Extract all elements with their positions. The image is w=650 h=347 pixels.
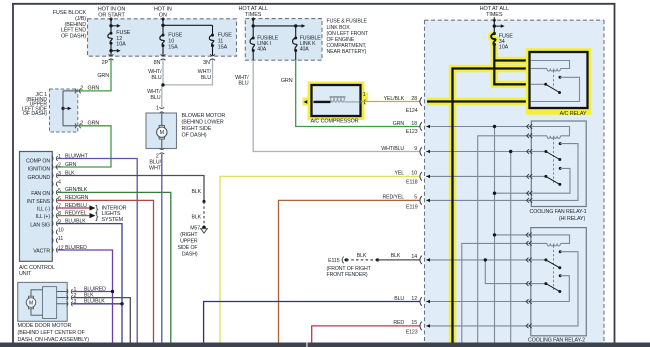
svg-text:2: 2 <box>80 86 83 92</box>
svg-text:15A: 15A <box>168 44 178 50</box>
fuse F11 15A <box>212 25 214 35</box>
svg-text:COOLING FAN RELAY-1: COOLING FAN RELAY-1 <box>530 209 587 215</box>
svg-text:UNIT: UNIT <box>19 271 32 277</box>
wire BLU to pin 12 <box>204 302 420 343</box>
svg-text:40A: 40A <box>257 47 267 53</box>
svg-text:2P: 2P <box>102 60 109 66</box>
svg-text:9: 9 <box>414 146 417 152</box>
svg-text:BLU: BLU <box>238 81 248 87</box>
svg-text:WHT: WHT <box>149 166 162 172</box>
svg-text:(FRONT OF RIGHT: (FRONT OF RIGHT <box>327 266 372 272</box>
cooling fan relay-2 <box>531 228 587 336</box>
svg-text:E118: E118 <box>406 179 418 185</box>
svg-text:10: 10 <box>58 227 64 233</box>
svg-text:LAN SIG: LAN SIG <box>30 222 50 228</box>
relay-1 switch 1 <box>531 151 546 153</box>
page border frame <box>12 3 14 343</box>
svg-text:(HI RELAY): (HI RELAY) <box>559 216 586 222</box>
fuse F34 10A <box>493 17 495 33</box>
interior vertical wire E (BLK to relay-2 sw2) <box>485 260 531 284</box>
wire GRN fuse12 to J/C1 <box>78 58 111 91</box>
svg-text:VACTR: VACTR <box>33 249 50 255</box>
relay-1 switch 2 <box>531 175 546 177</box>
svg-text:28: 28 <box>411 96 417 102</box>
svg-text:3N: 3N <box>203 60 210 66</box>
interior wire row pin 14 <box>426 259 531 261</box>
interior wire row pin 15 <box>426 325 531 327</box>
fuse and fusible link box <box>245 19 322 61</box>
svg-text:INT SENS: INT SENS <box>27 199 51 205</box>
svg-text:NEAR BATTERY): NEAR BATTERY) <box>327 49 367 55</box>
mode door motor <box>18 282 67 321</box>
wire GRN J/C1 to A/C control unit <box>55 126 112 167</box>
fuse block J/B dashed box <box>88 19 237 56</box>
A/C relay highlighted <box>526 48 592 115</box>
wire WHT/BLU from 3N <box>163 58 213 85</box>
svg-text:DASH): DASH) <box>182 251 198 257</box>
A/C control unit pin 10 connector <box>52 230 58 235</box>
fuse F12 10A <box>110 17 112 33</box>
wire BLU/RED mode door pin1 <box>72 291 112 293</box>
svg-text:(RIGHT: (RIGHT <box>180 232 198 238</box>
wire RED/YEL to pin 5 <box>279 200 420 342</box>
svg-text:M57: M57 <box>190 226 200 232</box>
connector pin 3N <box>210 54 215 60</box>
svg-text:GRN: GRN <box>393 121 405 127</box>
svg-text:FAN ON: FAN ON <box>31 191 50 197</box>
svg-text:}: } <box>95 211 98 222</box>
svg-text:OR START: OR START <box>98 13 125 19</box>
relay-2 switch 1 <box>531 259 546 261</box>
interior wire row pin 9 <box>426 151 531 153</box>
svg-text:BLK: BLK <box>391 253 401 259</box>
svg-text:SYSTEM: SYSTEM <box>102 217 124 223</box>
svg-text:M: M <box>160 130 165 136</box>
svg-text:40A: 40A <box>300 47 310 53</box>
svg-text:TIMES: TIMES <box>486 12 503 18</box>
svg-text:GRN: GRN <box>65 162 77 168</box>
mode door motor pin 1 connector <box>67 289 73 294</box>
svg-text:2: 2 <box>156 153 159 159</box>
svg-text:BLK: BLK <box>357 253 367 259</box>
mode door motor pin 3 connector <box>67 301 73 306</box>
svg-text:BLU: BLU <box>151 75 161 81</box>
svg-text:GRN: GRN <box>97 73 109 79</box>
svg-text:ILL (-): ILL (-) <box>37 207 50 213</box>
A/C control unit pin 9 connector <box>52 221 58 226</box>
svg-text:TIMES: TIMES <box>245 12 262 18</box>
svg-text:MODE DOOR MOTOR: MODE DOOR MOTOR <box>18 323 72 329</box>
junction 8N-3N <box>161 83 164 86</box>
svg-text:15A: 15A <box>218 44 228 50</box>
A/C control unit pin 2 connector <box>52 165 58 170</box>
svg-text:OF DASH): OF DASH) <box>23 111 47 117</box>
svg-text:OF DASH): OF DASH) <box>61 33 86 39</box>
A/C control unit pin 8 connector <box>52 213 58 218</box>
svg-text:ILL (+): ILL (+) <box>36 214 51 220</box>
svg-text:GROUND: GROUND <box>28 175 51 181</box>
IPDM engine-room dashed box <box>425 20 605 342</box>
bottom bar <box>0 343 650 347</box>
relay-2 switch 2 <box>531 283 546 285</box>
svg-text:RIGHT SIDE: RIGHT SIDE <box>182 126 212 132</box>
svg-text:1: 1 <box>363 92 366 98</box>
mode door motor pin 2 connector <box>67 295 73 300</box>
svg-text:BLK: BLK <box>191 189 201 195</box>
interior vertical wire B (GRN net) <box>494 127 496 343</box>
svg-text:DASH, ON HVAC ASSEMBLY): DASH, ON HVAC ASSEMBLY) <box>18 337 90 343</box>
svg-text:A/C COMPRESSOR: A/C COMPRESSOR <box>311 118 359 124</box>
svg-text:1: 1 <box>156 105 159 111</box>
connector pin 2P <box>109 54 114 60</box>
svg-text:COMP ON: COMP ON <box>26 158 50 164</box>
interior wire row pin 18 <box>426 126 531 128</box>
wire YEL to pin 10 <box>220 176 420 342</box>
svg-text:BLOWER MOTOR: BLOWER MOTOR <box>182 113 226 119</box>
svg-text:10A: 10A <box>116 42 126 48</box>
svg-text:8N: 8N <box>154 60 161 66</box>
svg-text:BLU: BLU <box>150 95 160 101</box>
svg-text:E119: E119 <box>406 204 418 210</box>
svg-text:IGNITION: IGNITION <box>28 167 51 173</box>
interior vertical wire D (coil relay-2) <box>462 243 531 342</box>
wire YEL/BLK compressor to pin 28 <box>361 101 420 103</box>
connector pin 8N <box>161 54 166 60</box>
svg-text:OF DASH): OF DASH) <box>182 132 207 138</box>
svg-text:E123: E123 <box>406 330 418 336</box>
A/C relay switch <box>531 83 546 85</box>
A/C control unit pin 1 connector <box>52 156 58 161</box>
interior wire row pin 5 <box>426 199 531 201</box>
svg-text:18: 18 <box>411 121 417 127</box>
svg-text:YEL/BLK: YEL/BLK <box>384 96 405 102</box>
A/C control unit pin 3 connector <box>52 173 58 178</box>
fuse F10 15A <box>162 17 164 35</box>
svg-text:WHT/BLU: WHT/BLU <box>381 146 404 152</box>
A/C control unit pin 5 connector <box>52 190 58 195</box>
svg-text:M: M <box>29 300 33 306</box>
svg-text:10A: 10A <box>499 45 509 51</box>
svg-text:11: 11 <box>58 236 63 242</box>
A/C control unit pin 7 connector <box>52 206 58 211</box>
A/C control unit pin 12 connector <box>52 248 58 253</box>
svg-text:BLK: BLK <box>191 215 201 221</box>
svg-text:(BEHIND LOWER: (BEHIND LOWER <box>182 120 224 126</box>
svg-text:SIDE OF: SIDE OF <box>177 245 197 251</box>
junction connector J/C 1 <box>50 89 78 132</box>
wire WHT/BLU from 8N to blower <box>162 58 164 85</box>
A/C control unit pin 4 connector <box>52 182 58 187</box>
interior vertical wire C (WHT/BLU net) <box>510 152 512 343</box>
A/C control unit pin 11 connector <box>52 238 58 243</box>
svg-text:4: 4 <box>58 179 61 185</box>
svg-text:FRONT FENDER): FRONT FENDER) <box>327 272 368 278</box>
A/C compressor highlighted <box>308 82 365 121</box>
wire RED to pin 15 <box>312 326 420 343</box>
fusible link I 40A <box>252 17 254 38</box>
svg-text:GRN: GRN <box>281 78 293 84</box>
connector redraw 2P/8N/3N <box>109 54 114 60</box>
A/C control unit pin 6 connector <box>52 198 58 203</box>
interior wire row pin 12 <box>426 301 531 303</box>
svg-text:E123: E123 <box>406 129 418 135</box>
svg-text:E115: E115 <box>328 258 340 264</box>
svg-text:GRN: GRN <box>88 86 100 92</box>
svg-text:UPPER: UPPER <box>180 239 198 245</box>
cooling fan relay-1 (HI relay) <box>531 121 586 207</box>
svg-text:BLU: BLU <box>201 75 211 81</box>
wire BLU/BLK mode door pin3 <box>72 303 122 305</box>
interior vertical wire A (coil relay-1) <box>478 136 532 343</box>
svg-text:E124: E124 <box>406 108 418 114</box>
svg-text:BLU/: BLU/ <box>149 159 161 165</box>
wire BLU/WHT blower pin2 down <box>161 154 163 343</box>
highlighted wire fuse34 feed <box>494 45 530 85</box>
ground M57 <box>202 226 206 230</box>
svg-text:A/C RELAY: A/C RELAY <box>560 111 587 117</box>
svg-text:2: 2 <box>58 162 61 168</box>
fusible link K 40A <box>295 26 297 38</box>
svg-text:(BEHIND LEFT CENTER OF: (BEHIND LEFT CENTER OF <box>18 330 86 336</box>
A/C control unit <box>20 152 53 262</box>
wire BLK mode door pin2 <box>72 298 130 343</box>
interior wire row pin 10 <box>426 175 531 177</box>
